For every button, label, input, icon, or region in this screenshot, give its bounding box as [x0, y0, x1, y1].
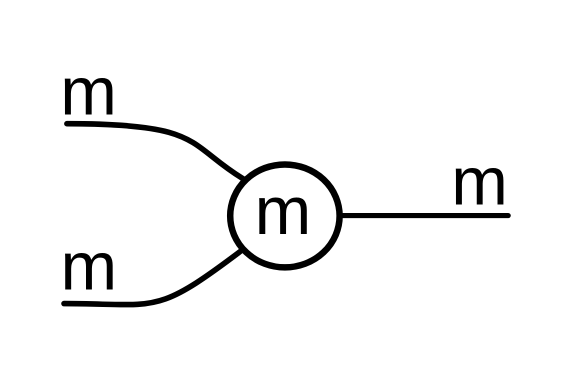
svg-text:m: m — [451, 143, 508, 219]
node m (ellipse) — [230, 164, 339, 267]
svg-text:m: m — [61, 229, 118, 305]
svg-text:m: m — [255, 173, 312, 249]
wire top-left input to node m — [67, 124, 249, 183]
svg-text:m: m — [60, 53, 117, 129]
wire bottom-left input to node m — [64, 247, 247, 305]
wire output right — [335, 213, 508, 218]
